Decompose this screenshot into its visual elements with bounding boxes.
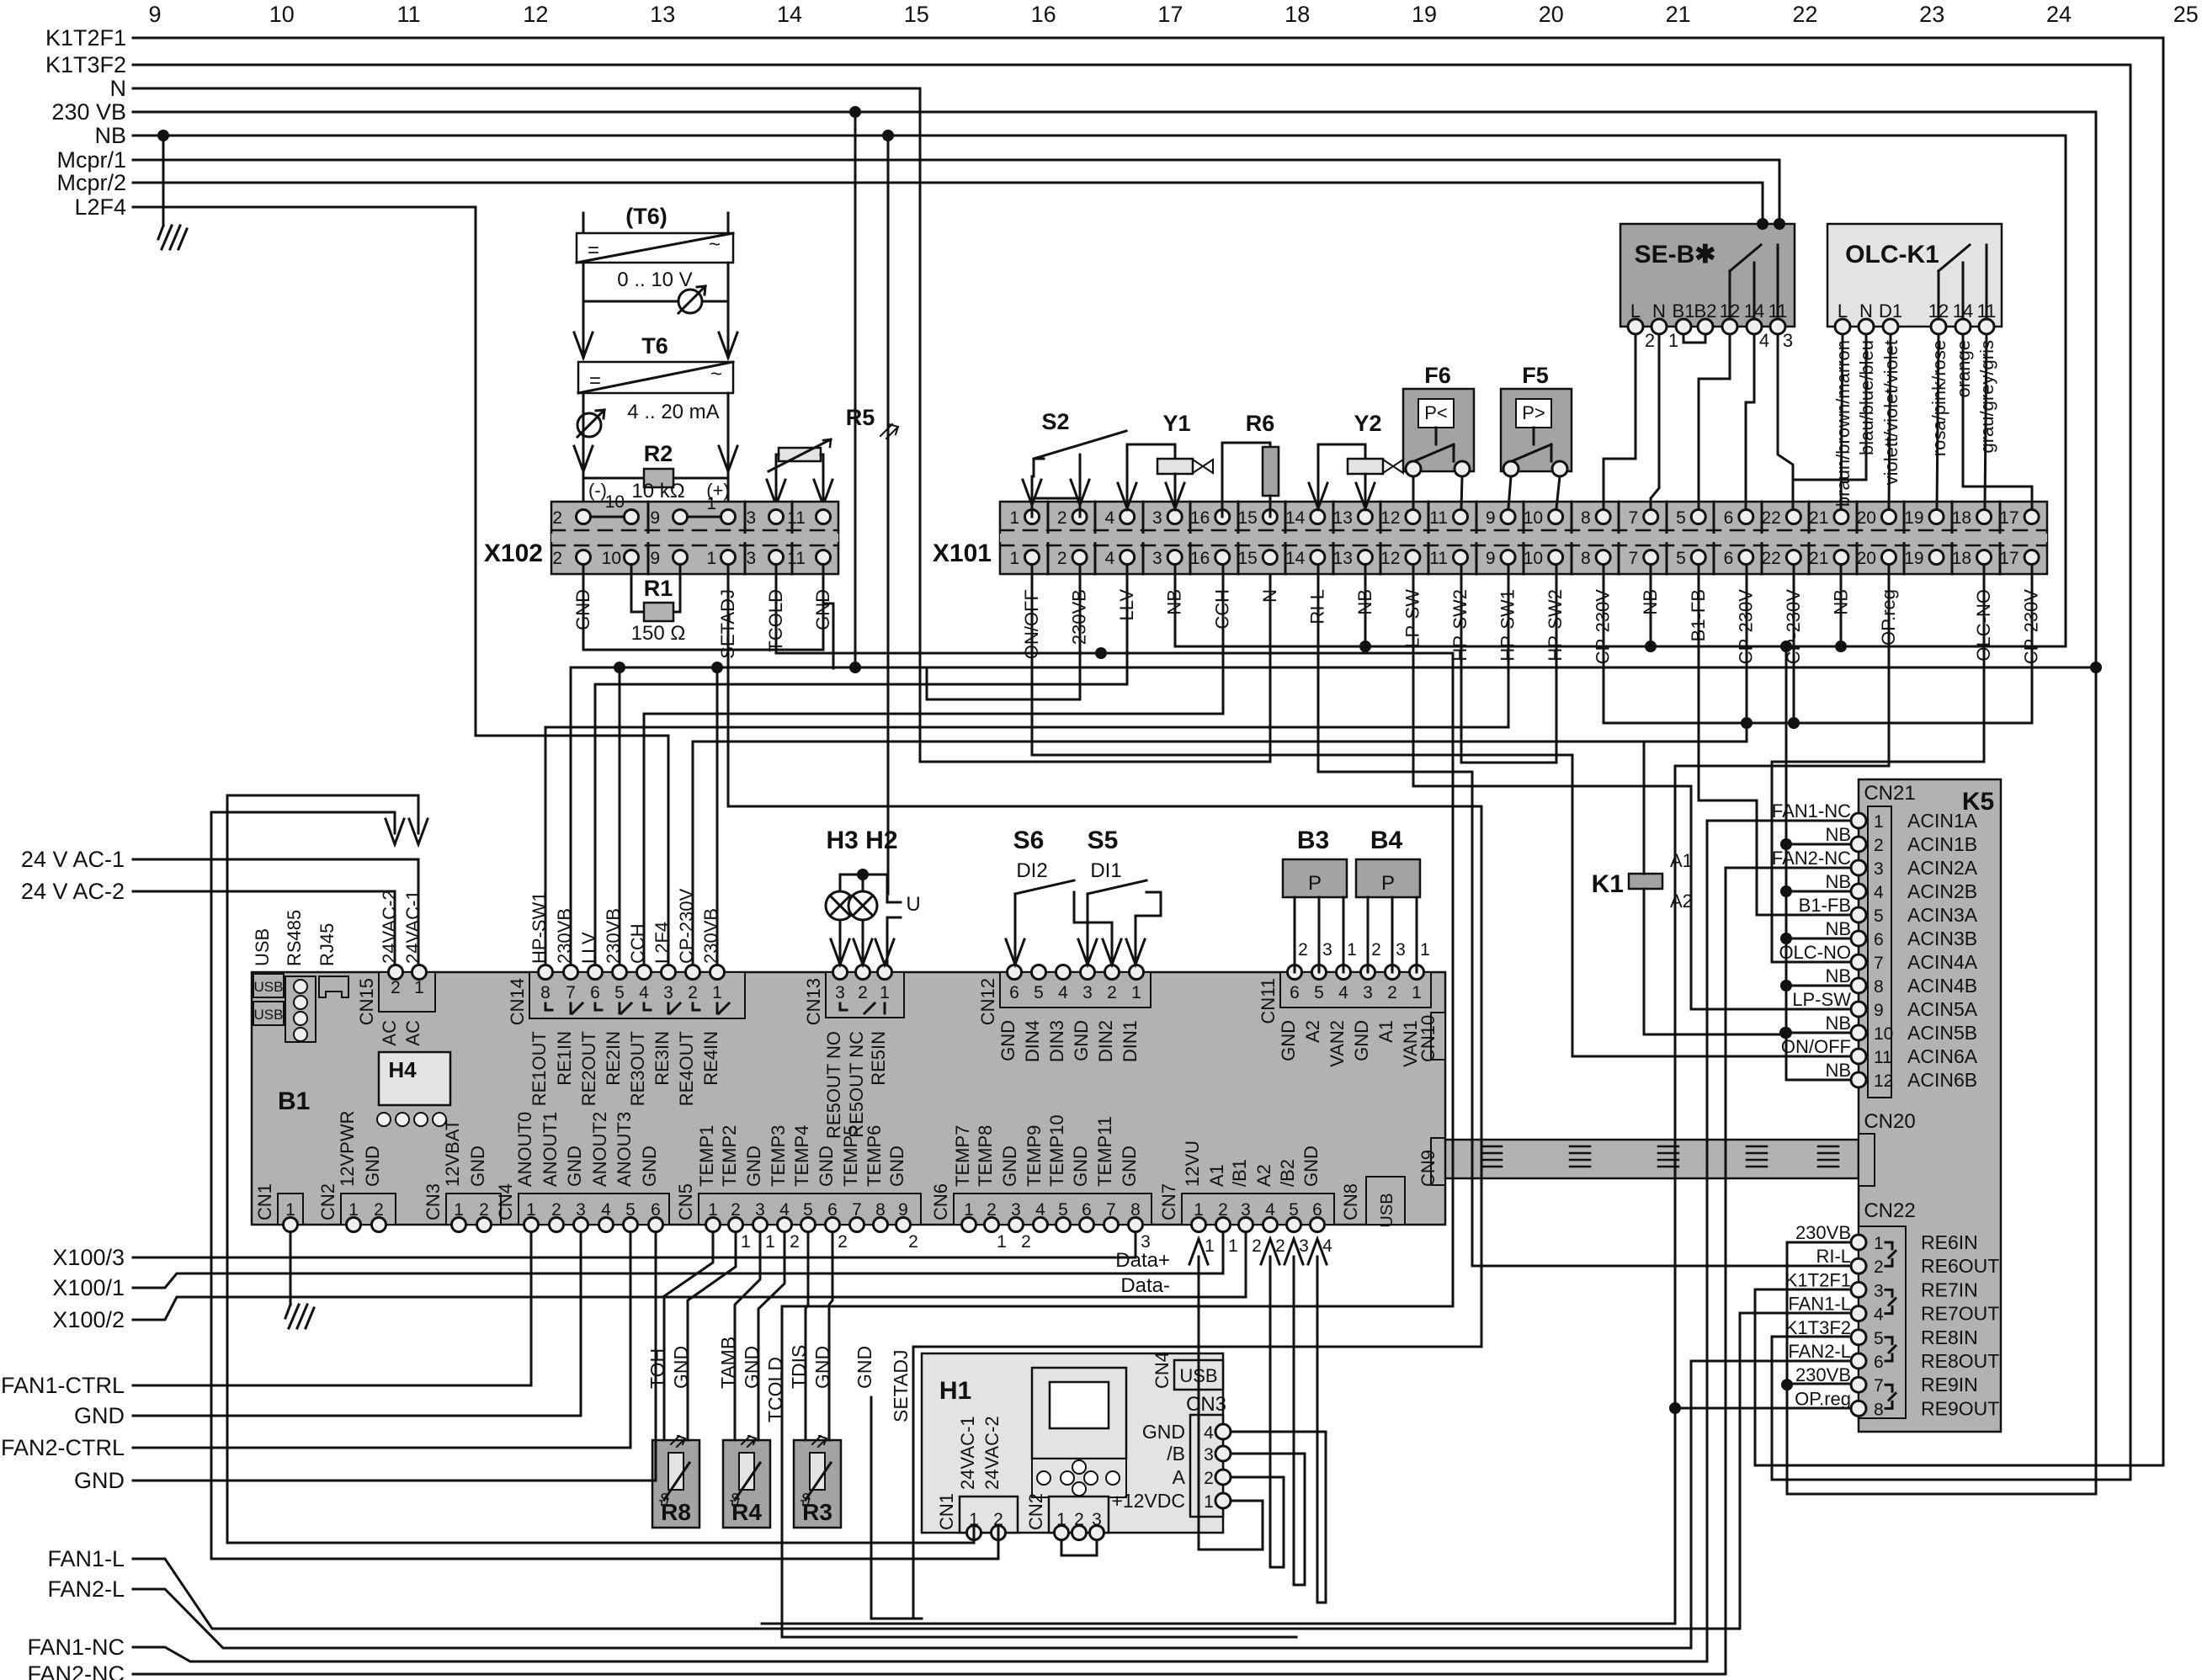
wire CP-230V rail — [1604, 566, 2032, 742]
wire rail 897 ONOFF — [1032, 566, 1851, 1056]
svg-text:GND: GND — [467, 1146, 488, 1187]
svg-text:17: 17 — [1999, 508, 2018, 528]
relay board K5 — [1859, 779, 2001, 1432]
svg-text:2: 2 — [1874, 836, 1884, 855]
wire TCOLD run — [776, 566, 1453, 1637]
svg-text:18: 18 — [1952, 549, 1971, 568]
labels below CN12 — [997, 1020, 1141, 1062]
svg-text:14: 14 — [1285, 508, 1306, 528]
svg-text:USB: USB — [254, 1007, 284, 1023]
svg-text:FAN2-CTRL: FAN2-CTRL — [1, 1435, 125, 1460]
connector CN10 — [1431, 1013, 1445, 1060]
svg-text:ANOUT2: ANOUT2 — [589, 1112, 610, 1187]
relay coil K1 — [1592, 850, 1693, 912]
svg-text:23: 23 — [1919, 2, 1944, 27]
svg-text:2: 2 — [552, 508, 562, 528]
svg-text:ACIN5A: ACIN5A — [1907, 998, 1978, 1020]
svg-text:12VPWR: 12VPWR — [337, 1111, 358, 1187]
svg-text:A1: A1 — [1670, 850, 1693, 871]
svg-text:24 V AC-1: 24 V AC-1 — [21, 847, 125, 872]
svg-text:GND: GND — [816, 1146, 837, 1187]
svg-text:3: 3 — [1363, 983, 1373, 1002]
svg-text:S6: S6 — [1013, 827, 1045, 854]
svg-text:GND: GND — [854, 1346, 875, 1389]
labels above CN6 — [952, 1114, 1140, 1187]
svg-text:VAN2: VAN2 — [1327, 1020, 1348, 1067]
svg-text:RE1OUT: RE1OUT — [529, 1031, 550, 1106]
svg-text:2: 2 — [838, 1232, 848, 1252]
wire /B loop — [1231, 1257, 1305, 1585]
svg-text:ACIN3A: ACIN3A — [1907, 904, 1978, 926]
svg-text:Data-: Data- — [1120, 1274, 1170, 1297]
svg-text:K1: K1 — [1592, 870, 1624, 898]
svg-text:RE9IN: RE9IN — [1921, 1374, 1978, 1396]
svg-text:CN1: CN1 — [936, 1493, 957, 1530]
svg-text:A2: A2 — [1670, 891, 1693, 912]
svg-text:2: 2 — [908, 1232, 918, 1252]
svg-text:GND: GND — [886, 1146, 907, 1187]
control panel H1 — [922, 1353, 1223, 1533]
svg-text:CN5: CN5 — [675, 1183, 696, 1220]
svg-text:CN7: CN7 — [1158, 1183, 1179, 1220]
connector H1-CN2 — [1049, 1497, 1109, 1540]
svg-text:N: N — [1652, 300, 1666, 322]
svg-text:3: 3 — [1152, 508, 1162, 528]
svg-text:20: 20 — [1857, 549, 1876, 568]
wire SETADJ run — [728, 566, 1481, 1619]
svg-text:4: 4 — [1874, 883, 1884, 902]
svg-text:8: 8 — [1581, 549, 1591, 568]
svg-text:1: 1 — [1228, 1236, 1238, 1256]
wire rail 951 B1FB — [1699, 566, 1851, 915]
svg-text:P<: P< — [1424, 402, 1448, 423]
RJ45 connector — [319, 976, 348, 997]
connector CN22 — [1851, 1226, 1999, 1419]
svg-text:2: 2 — [1021, 1232, 1031, 1252]
svg-text:11: 11 — [1874, 1048, 1892, 1067]
wire F6 to X101-12 — [1412, 476, 1415, 508]
svg-text:K1T2F1: K1T2F1 — [45, 25, 126, 51]
svg-text:X101: X101 — [933, 540, 992, 567]
wire N bus — [133, 88, 1270, 762]
temperature sensor R4 — [723, 1436, 770, 1528]
svg-text:GND: GND — [74, 1403, 125, 1428]
svg-text:DIN2: DIN2 — [1095, 1020, 1116, 1062]
svg-text:3: 3 — [1396, 940, 1406, 960]
wire CN22 230VB — [1787, 1242, 1848, 1494]
wire FAN2-NC — [133, 868, 1851, 1674]
svg-text:13: 13 — [1333, 549, 1353, 568]
svg-text:Mcpr/2: Mcpr/2 — [56, 170, 126, 195]
svg-text:FAN1-CTRL: FAN1-CTRL — [1, 1373, 125, 1398]
labels above CN5 — [696, 1125, 907, 1187]
connector CN8 — [1366, 1177, 1405, 1228]
terminal block X102 — [551, 492, 838, 574]
wire NB ground drop — [162, 136, 165, 226]
NB rail at CN21 — [1780, 838, 1851, 1080]
svg-text:4 .. 20 mA: 4 .. 20 mA — [627, 401, 719, 423]
svg-text:25: 25 — [2173, 2, 2199, 27]
svg-text:GND: GND — [639, 1146, 660, 1187]
connector CN4 — [519, 1194, 669, 1232]
svg-text:H3 H2: H3 H2 — [826, 827, 897, 854]
svg-text:7: 7 — [1629, 549, 1639, 568]
svg-text:AC: AC — [402, 1020, 423, 1046]
svg-text:CN10: CN10 — [1417, 1015, 1439, 1062]
svg-text:X102: X102 — [484, 540, 543, 567]
labels below CN11 — [1278, 1020, 1421, 1067]
svg-text:L2F4: L2F4 — [74, 194, 126, 220]
svg-text:14: 14 — [1285, 549, 1306, 568]
svg-text:~: ~ — [710, 363, 722, 385]
svg-text:RE6IN: RE6IN — [1921, 1231, 1978, 1253]
svg-text:T6: T6 — [641, 333, 668, 359]
node TCOLD junction — [1095, 647, 1107, 659]
resistor R2 — [583, 441, 728, 487]
svg-text:12: 12 — [1874, 1071, 1893, 1091]
svg-text:RE7IN: RE7IN — [1921, 1279, 1978, 1300]
wire FAN1-CTRL — [133, 1232, 531, 1385]
wire R4 TAMB — [735, 1232, 760, 1440]
svg-text:22: 22 — [1761, 508, 1780, 528]
svg-text:10: 10 — [1524, 508, 1543, 528]
wire rail 917 RI-L — [1318, 566, 1848, 1266]
svg-text:24 V AC-2: 24 V AC-2 — [21, 879, 125, 904]
svg-text:L: L — [1630, 300, 1641, 322]
svg-text:A2: A2 — [1302, 1020, 1323, 1043]
svg-text:1: 1 — [1205, 1236, 1215, 1256]
svg-text:11: 11 — [1429, 508, 1448, 528]
svg-text:230VB: 230VB — [1795, 1364, 1851, 1385]
svg-text:GND: GND — [1070, 1146, 1091, 1187]
svg-text:S2: S2 — [1041, 409, 1069, 434]
wire OLC L to X101-21 — [1841, 334, 1843, 508]
svg-text:H1: H1 — [939, 1377, 971, 1405]
wire Mcpr/1 bus — [133, 160, 1779, 224]
pressure sensor B4 — [1356, 827, 1420, 897]
svg-text:CN8: CN8 — [1340, 1183, 1361, 1220]
resistor R1 — [631, 566, 680, 621]
svg-text:CN12: CN12 — [977, 978, 998, 1025]
svg-text:ACIN6B: ACIN6B — [1907, 1069, 1977, 1091]
svg-text:FAN2-L: FAN2-L — [1788, 1341, 1851, 1362]
svg-text:ACIN4A: ACIN4A — [1907, 951, 1978, 973]
svg-text:/B1: /B1 — [1229, 1159, 1250, 1187]
svg-text:5: 5 — [614, 983, 625, 1002]
wire H2 leg — [854, 920, 872, 965]
wire K1T2F1 bus — [133, 38, 2163, 1465]
svg-text:TEMP7: TEMP7 — [952, 1125, 973, 1187]
svg-text:Mcpr/1: Mcpr/1 — [56, 147, 126, 173]
svg-text:B1: B1 — [1673, 300, 1695, 322]
svg-text:19: 19 — [1412, 2, 1437, 27]
H1 keypad — [1032, 1459, 1126, 1497]
switch S6 — [1006, 827, 1121, 965]
svg-text:18: 18 — [1952, 508, 1971, 528]
svg-text:1: 1 — [880, 983, 890, 1002]
svg-text:1: 1 — [1874, 812, 1884, 832]
node CN22 230VB — [1781, 1379, 1793, 1390]
svg-text:ANOUT1: ANOUT1 — [540, 1112, 561, 1187]
svg-text:24VAC-1: 24VAC-1 — [402, 890, 423, 964]
svg-text:GND: GND — [997, 1020, 1019, 1061]
wire T6 left leg — [574, 393, 593, 517]
svg-text:OLC-NO: OLC-NO — [1779, 942, 1851, 963]
display H4 — [379, 1052, 450, 1105]
svg-text:18: 18 — [1284, 2, 1310, 27]
svg-text:6: 6 — [1724, 508, 1734, 528]
svg-text:GND: GND — [564, 1146, 585, 1187]
svg-text:20: 20 — [1539, 2, 1564, 27]
svg-text:15: 15 — [1237, 549, 1257, 568]
connector H1-CN4 — [1174, 1360, 1223, 1390]
svg-text:DI2: DI2 — [1016, 859, 1047, 882]
svg-text:8: 8 — [1581, 508, 1591, 528]
svg-text:3: 3 — [1322, 940, 1332, 960]
svg-text:24VAC-2: 24VAC-2 — [379, 890, 400, 964]
svg-text:GND: GND — [1119, 1146, 1140, 1187]
svg-text:8: 8 — [1874, 977, 1884, 997]
svg-text:22: 22 — [1761, 549, 1780, 568]
svg-text:2: 2 — [790, 1232, 800, 1252]
svg-text:K1T3F2: K1T3F2 — [45, 52, 126, 77]
svg-text:FAN1-L: FAN1-L — [1788, 1294, 1851, 1315]
wire rail OLC-NO — [1772, 566, 1984, 962]
svg-text:2: 2 — [1387, 983, 1397, 1002]
wire X100/1 Data+ — [133, 1232, 1223, 1288]
wire +12VDC loop — [1199, 1257, 1263, 1550]
svg-text:CN21: CN21 — [1864, 782, 1915, 805]
svg-text:2: 2 — [858, 983, 868, 1002]
svg-text:14: 14 — [777, 2, 802, 27]
wire F5 to X101-9 — [1508, 476, 1511, 508]
svg-text:RE3OUT: RE3OUT — [627, 1031, 648, 1106]
valve Y1 — [1118, 411, 1213, 508]
svg-text:1: 1 — [414, 978, 424, 997]
svg-text:5: 5 — [1676, 508, 1686, 528]
transformer T6 — [578, 333, 733, 393]
connector CN15 — [379, 965, 435, 1013]
svg-text:6: 6 — [1874, 930, 1884, 949]
H1 display — [1032, 1368, 1126, 1459]
svg-text:CN4: CN4 — [1152, 1352, 1173, 1389]
OLC-K1 pins — [1835, 300, 1996, 334]
svg-text:150 Ω: 150 Ω — [631, 622, 686, 645]
svg-text:230VB: 230VB — [1795, 1222, 1851, 1243]
wire A loop — [1231, 1257, 1284, 1567]
svg-text:7: 7 — [1874, 1376, 1884, 1396]
wire rail 848 CCH — [643, 714, 646, 965]
svg-text:24: 24 — [2046, 2, 2072, 27]
svg-text:ANOUT0: ANOUT0 — [514, 1112, 535, 1187]
connector CN12 — [1000, 965, 1151, 1008]
svg-text:6: 6 — [1724, 549, 1734, 568]
svg-text:USB: USB — [254, 979, 284, 995]
svg-text:2: 2 — [1107, 983, 1117, 1002]
svg-text:TEMP5: TEMP5 — [840, 1125, 861, 1187]
svg-text:NB: NB — [1825, 1013, 1851, 1034]
svg-text:1: 1 — [741, 1232, 751, 1252]
temperature sensor R8 — [652, 1436, 699, 1528]
SE-B* contact symbol — [1730, 245, 1778, 319]
RS485 connector — [285, 976, 316, 1042]
labels above CN14 — [529, 888, 721, 964]
svg-text:1: 1 — [712, 983, 722, 1002]
svg-text:NB: NB — [94, 123, 126, 148]
svg-text:DIN3: DIN3 — [1046, 1020, 1067, 1062]
svg-text:NB: NB — [1825, 871, 1851, 892]
svg-text:GND: GND — [74, 1468, 125, 1493]
svg-text:2: 2 — [1874, 1257, 1884, 1277]
svg-text:D1: D1 — [1879, 300, 1902, 322]
svg-text:3: 3 — [663, 983, 673, 1002]
switch S5 — [1078, 827, 1161, 965]
svg-text:SETADJ: SETADJ — [890, 1350, 912, 1422]
wire rail 831 230VB2 — [1079, 566, 1082, 699]
svg-text:20: 20 — [1857, 508, 1876, 528]
svg-text:K1T3F2: K1T3F2 — [1785, 1317, 1851, 1338]
wire rail 934 LP-SW — [1413, 566, 1851, 1009]
svg-text:10: 10 — [605, 492, 625, 512]
wire H1-CN2 link 1-3 — [1061, 1540, 1097, 1555]
labels left of CN21 — [1772, 800, 1851, 1081]
wire GND loop X102 — [583, 566, 823, 650]
ground symbol CN1 — [285, 1305, 314, 1328]
svg-text:TEMP9: TEMP9 — [1024, 1125, 1045, 1187]
svg-text:N: N — [1859, 300, 1873, 322]
connector CN3 — [446, 1194, 501, 1232]
node H3H2 common — [857, 869, 869, 880]
wire K1T3F2 bus — [133, 65, 2130, 1480]
svg-text:RE6OUT: RE6OUT — [1921, 1255, 1999, 1277]
svg-text:3: 3 — [1082, 983, 1093, 1002]
wire FAN2-L — [133, 1361, 1848, 1648]
svg-text:B1-FB: B1-FB — [1799, 895, 1851, 916]
wire R8 GND — [688, 1232, 736, 1440]
ground symbol left — [158, 226, 187, 249]
svg-text:ANOUT3: ANOUT3 — [614, 1112, 635, 1187]
svg-text:A1: A1 — [1206, 1164, 1227, 1187]
svg-text:1: 1 — [1874, 1234, 1884, 1253]
svg-text:6: 6 — [590, 983, 600, 1002]
svg-text:2: 2 — [688, 983, 698, 1002]
wire H3H2 top — [840, 875, 887, 894]
wire GND to CN4 — [133, 1232, 581, 1416]
svg-text:Y2: Y2 — [1354, 411, 1381, 436]
resistor R5 — [769, 405, 898, 471]
labels below CN14 — [529, 1031, 721, 1106]
svg-text:OLC-K1: OLC-K1 — [1845, 241, 1939, 268]
wire Mcpr/2 bus — [133, 183, 1763, 224]
svg-text:GND: GND — [1300, 1146, 1322, 1187]
svg-text:TEMP6: TEMP6 — [864, 1125, 885, 1187]
svg-text:ACIN1A: ACIN1A — [1907, 810, 1978, 832]
svg-text:RI-L: RI-L — [1816, 1246, 1851, 1267]
svg-text:9: 9 — [650, 549, 660, 568]
svg-text:12VBAT: 12VBAT — [442, 1119, 463, 1187]
connector CN2 — [341, 1194, 396, 1232]
wire 230VB bus — [133, 112, 2096, 1494]
connector CN21 — [1851, 806, 1978, 1098]
labels left of CN22 — [1785, 1222, 1851, 1409]
svg-text:GND: GND — [1351, 1020, 1372, 1061]
svg-text:15: 15 — [904, 2, 929, 27]
wire FAN1-NC — [133, 821, 1851, 1661]
svg-text:2: 2 — [1057, 549, 1067, 568]
svg-text:2: 2 — [1371, 940, 1381, 960]
svg-text:2: 2 — [1057, 508, 1067, 528]
connector CN14 — [529, 965, 745, 1019]
svg-text:ACIN5B: ACIN5B — [1907, 1022, 1977, 1044]
svg-text:R3: R3 — [802, 1499, 832, 1525]
svg-text:5: 5 — [1874, 1329, 1884, 1348]
svg-text:15: 15 — [1237, 508, 1257, 528]
wire OLC 14 to X101-17 — [1963, 334, 2032, 508]
wire 230VB drop — [854, 112, 857, 667]
svg-text:6: 6 — [1009, 983, 1019, 1002]
svg-text:21: 21 — [1809, 549, 1828, 568]
wire SE-B* L to X101-8 — [1604, 334, 1636, 508]
svg-text:8: 8 — [1874, 1400, 1884, 1419]
svg-text:R4: R4 — [731, 1499, 762, 1525]
svg-text:ON/OFF: ON/OFF — [1781, 1036, 1851, 1057]
svg-text:FAN2-L: FAN2-L — [47, 1576, 125, 1602]
svg-text:19: 19 — [1904, 549, 1923, 568]
svg-text:22: 22 — [1792, 2, 1817, 27]
wire U leg — [875, 929, 894, 965]
svg-text:24VAC-1: 24VAC-1 — [957, 1416, 978, 1490]
svg-text:ACIN4B: ACIN4B — [1907, 975, 1977, 997]
svg-text:CN2: CN2 — [317, 1183, 338, 1220]
svg-text:TEMP8: TEMP8 — [975, 1125, 996, 1187]
svg-text:CN1: CN1 — [254, 1183, 275, 1220]
pressure switch F5 — [1501, 363, 1572, 476]
svg-text:2: 2 — [552, 549, 562, 568]
labels under X101 — [1021, 589, 2042, 665]
svg-text:RE7OUT: RE7OUT — [1921, 1303, 1999, 1325]
svg-text:3: 3 — [1874, 1281, 1884, 1300]
connector CN7 — [1182, 1194, 1334, 1232]
svg-text:GND: GND — [1071, 1020, 1092, 1061]
valve Y2 — [1309, 411, 1403, 508]
wire rail 813 — [594, 684, 597, 965]
svg-text:/B: /B — [1167, 1443, 1185, 1465]
svg-text:10: 10 — [602, 549, 621, 568]
wire OLC N to X101-22 — [1793, 334, 1866, 508]
svg-text:P: P — [1381, 872, 1395, 895]
wire NB drop to U — [887, 136, 890, 894]
wire HP-SW2 pair — [1461, 566, 1556, 763]
svg-text:CN2: CN2 — [1025, 1493, 1046, 1530]
svg-text:1: 1 — [997, 1232, 1007, 1252]
meter symbol T6 — [577, 410, 604, 437]
svg-text:3: 3 — [1299, 1236, 1309, 1256]
svg-text:1: 1 — [1347, 940, 1357, 960]
svg-text:F5: F5 — [1522, 363, 1549, 388]
svg-text:B1: B1 — [278, 1087, 310, 1115]
meter symbol (T6) — [583, 286, 728, 313]
OLC-K1 wire colour labels — [1832, 340, 1997, 507]
relay module OLC-K1 — [1827, 224, 2002, 327]
svg-text:4: 4 — [1874, 1305, 1884, 1325]
svg-text:2: 2 — [1298, 940, 1308, 960]
wire T6 right leg — [719, 393, 737, 517]
svg-text:P>: P> — [1522, 402, 1545, 423]
svg-text:X100/1: X100/1 — [52, 1275, 125, 1300]
svg-text:AC: AC — [379, 1020, 400, 1046]
svg-text:12: 12 — [1380, 549, 1400, 568]
svg-text:GND: GND — [1142, 1421, 1185, 1443]
